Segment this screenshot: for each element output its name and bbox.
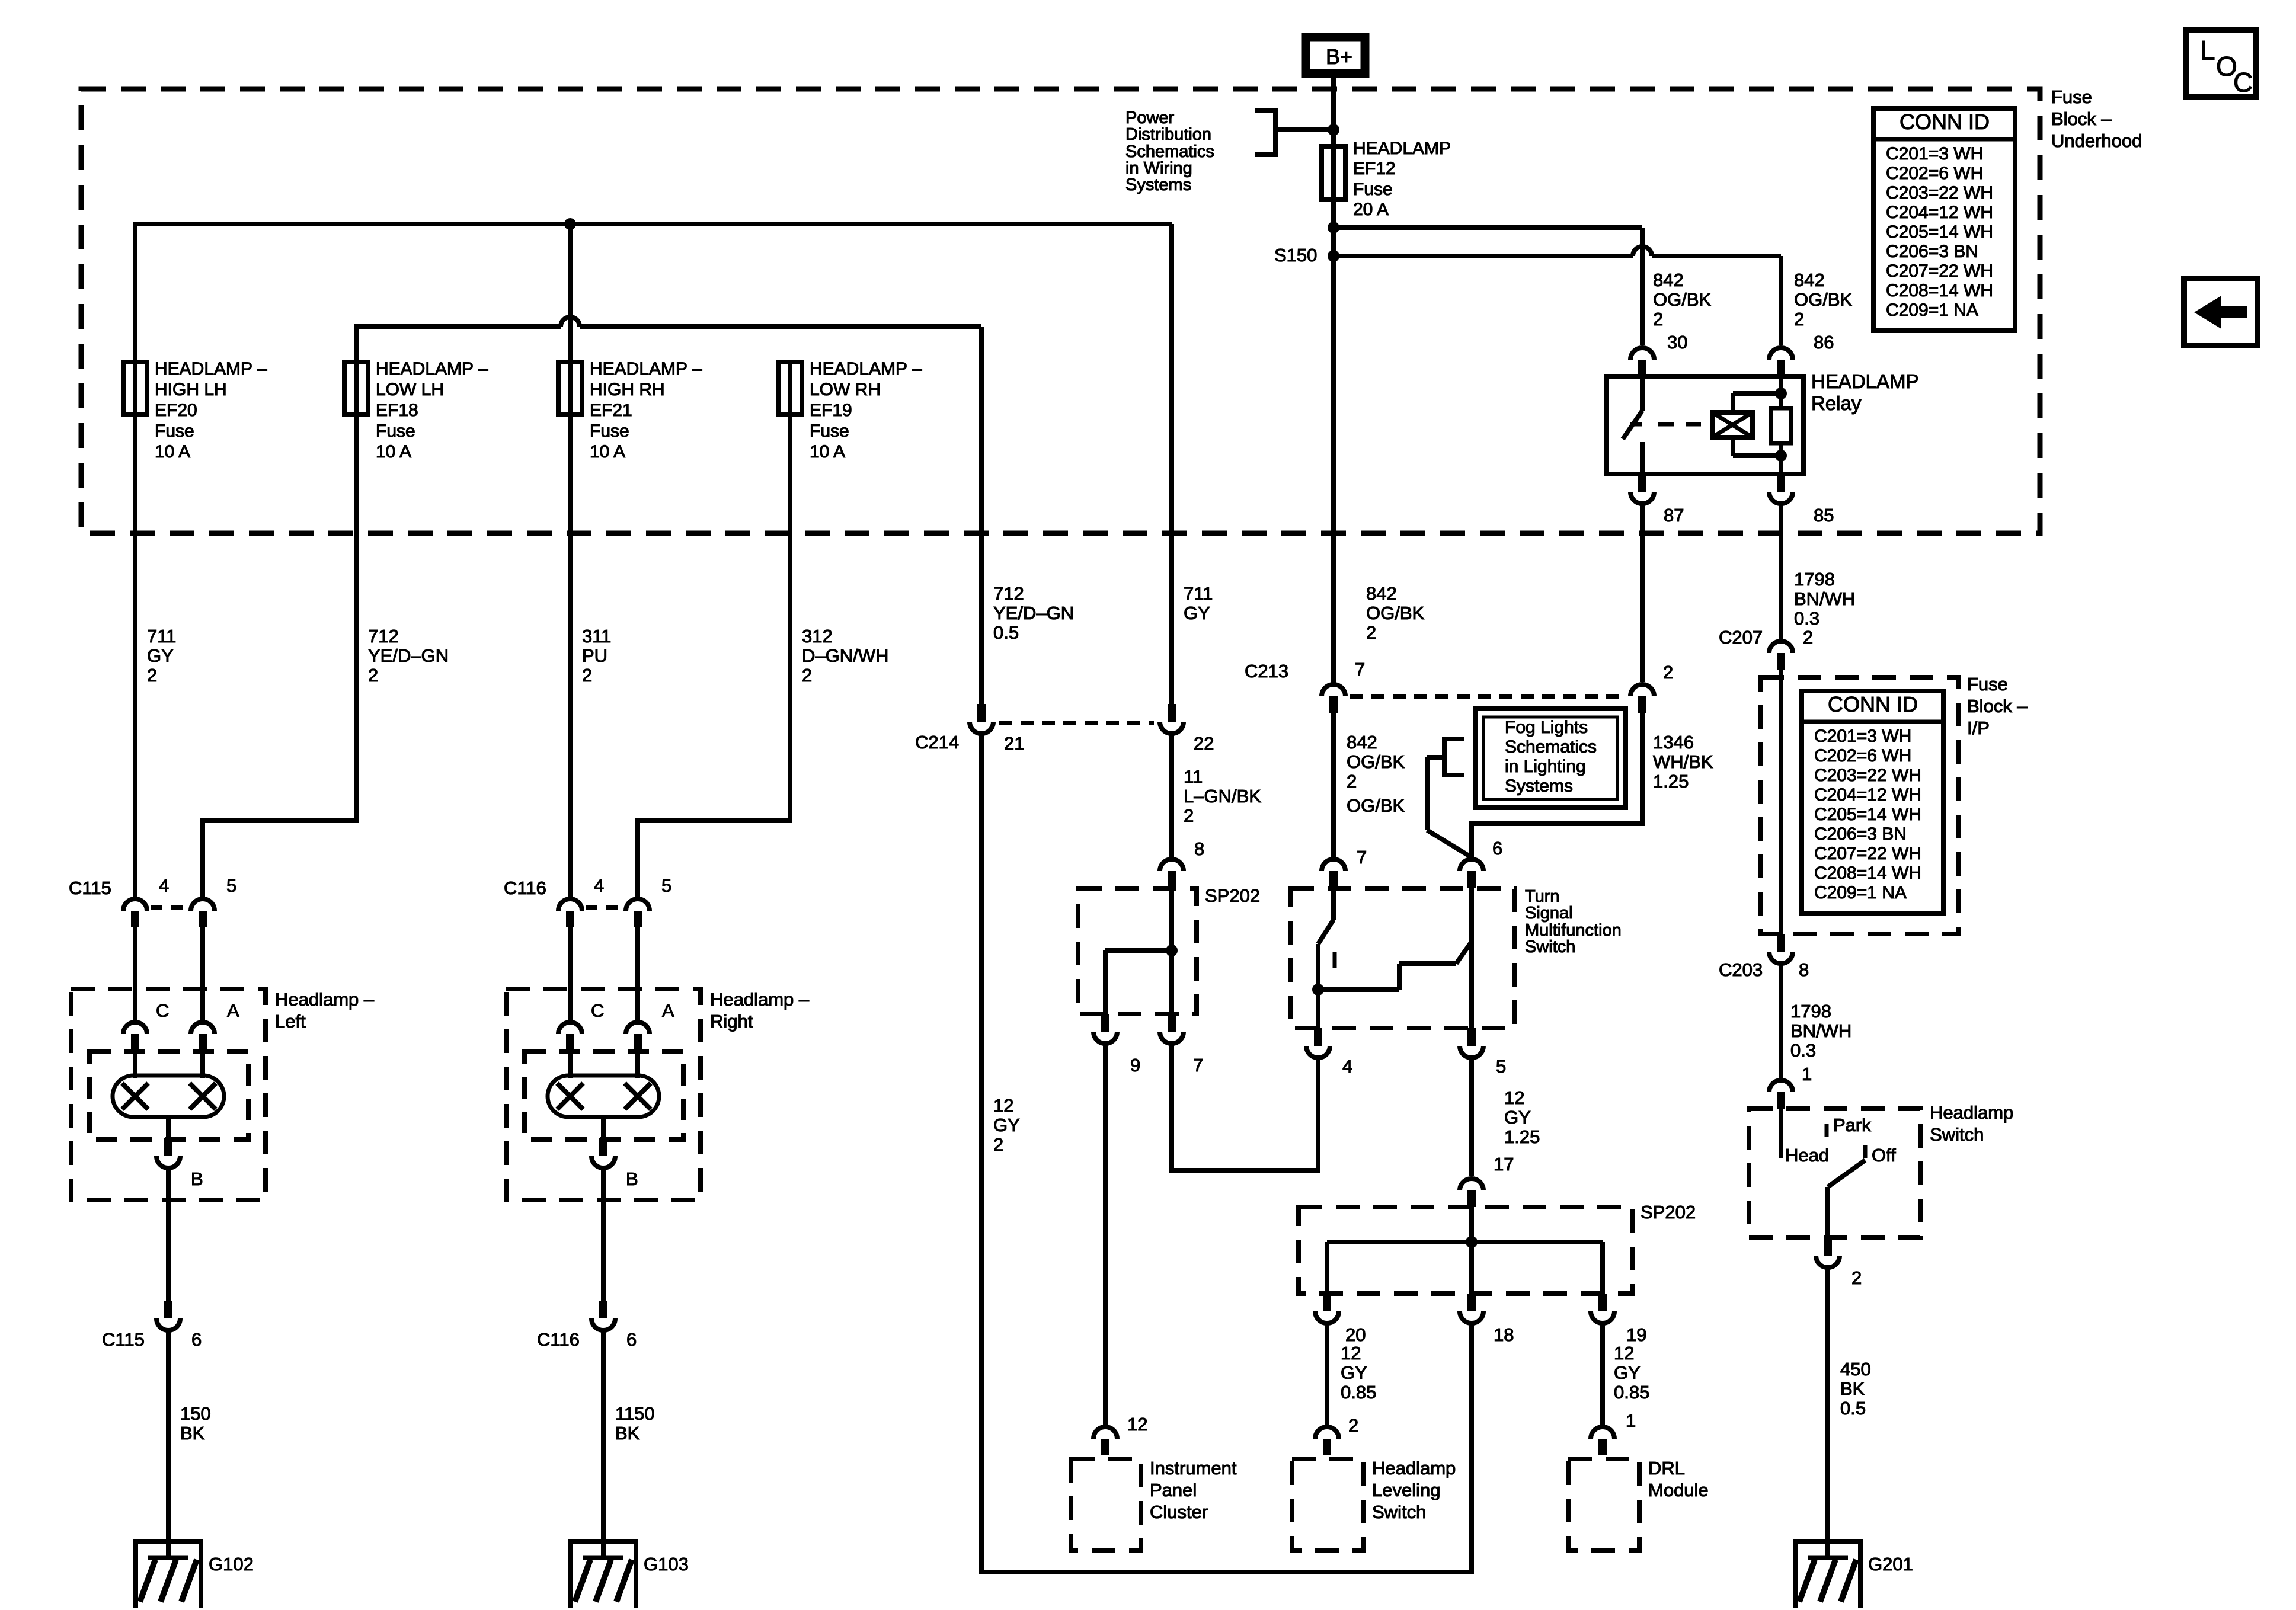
wire to G102 bbox=[166, 1328, 171, 1542]
wire relay85 to C207 bbox=[1779, 501, 1783, 639]
svg-text:1346: 1346 bbox=[1653, 732, 1694, 753]
svg-text:11: 11 bbox=[1184, 766, 1203, 787]
label HEADLAMP – LOW LH EF18 Fuse 10 A bbox=[376, 359, 488, 462]
svg-text:2: 2 bbox=[1803, 627, 1813, 648]
component Headlamp Leveling Switch dashed box bbox=[1292, 1459, 1363, 1550]
label 6 bbox=[626, 1329, 637, 1350]
svg-text:Panel: Panel bbox=[1150, 1480, 1197, 1500]
svg-text:312: 312 bbox=[802, 626, 833, 646]
svg-text:2: 2 bbox=[368, 665, 378, 686]
svg-text:GY: GY bbox=[993, 1115, 1020, 1135]
svg-text:712: 712 bbox=[368, 626, 399, 646]
label 11 L–GN/BK 2 bbox=[1184, 766, 1261, 826]
svg-text:EF20: EF20 bbox=[155, 401, 197, 420]
label 842 OG/BK 2 bbox=[1794, 270, 1853, 329]
junction dot SP202 bbox=[1166, 945, 1178, 956]
svg-text:842: 842 bbox=[1653, 270, 1684, 290]
svg-text:5: 5 bbox=[661, 875, 671, 896]
label 20 bbox=[1345, 1324, 1366, 1345]
svg-text:S150: S150 bbox=[1274, 245, 1317, 265]
svg-text:8: 8 bbox=[1194, 838, 1204, 859]
B+ battery terminal box bbox=[1306, 37, 1365, 73]
svg-text:G103: G103 bbox=[644, 1554, 689, 1574]
svg-text:4: 4 bbox=[159, 875, 169, 896]
svg-text:B: B bbox=[626, 1169, 638, 1189]
svg-text:BK: BK bbox=[615, 1423, 640, 1443]
label C bbox=[156, 1000, 169, 1021]
svg-text:7: 7 bbox=[1357, 847, 1367, 868]
wires into bulb bbox=[570, 1051, 638, 1078]
svg-text:HIGH LH: HIGH LH bbox=[155, 380, 227, 399]
svg-text:C: C bbox=[591, 1000, 604, 1021]
label 2 bbox=[1663, 662, 1673, 683]
svg-text:SP202: SP202 bbox=[1205, 885, 1260, 906]
label 1798 BN/WH 0.3 bbox=[1790, 1001, 1851, 1061]
svg-text:1150: 1150 bbox=[615, 1403, 655, 1424]
svg-text:EF18: EF18 bbox=[376, 401, 418, 420]
label G102 bbox=[209, 1554, 254, 1574]
wire EF21 to C116-4 bbox=[568, 362, 573, 897]
relay switch contact bbox=[1623, 376, 1642, 474]
svg-text:711: 711 bbox=[147, 626, 176, 646]
bulb Right bbox=[548, 1076, 659, 1117]
connector C207 pin2 bbox=[1769, 641, 1793, 670]
node S150 bbox=[1328, 250, 1339, 262]
wire EF20 to C115-4 bbox=[133, 362, 137, 897]
svg-text:85: 85 bbox=[1814, 505, 1834, 526]
svg-text:D–GN/WH: D–GN/WH bbox=[802, 645, 888, 666]
fuse block IP dashed box bbox=[1760, 677, 1959, 934]
connector C115 pin6 bbox=[156, 1301, 180, 1330]
svg-text:Park: Park bbox=[1833, 1115, 1871, 1135]
SP202 lower internal wires bbox=[1327, 1207, 1603, 1294]
svg-text:2: 2 bbox=[1184, 805, 1194, 826]
label 5 bbox=[1496, 1056, 1506, 1077]
power distribution bracket bbox=[1255, 108, 1275, 157]
svg-text:GY: GY bbox=[1504, 1107, 1531, 1128]
svg-text:Switch: Switch bbox=[1372, 1502, 1426, 1522]
svg-text:0.5: 0.5 bbox=[1840, 1398, 1866, 1419]
relay HEADLAMP Relay box bbox=[1606, 376, 1803, 474]
svg-text:A: A bbox=[227, 1000, 239, 1021]
label 4 bbox=[159, 875, 169, 896]
label 85 bbox=[1814, 505, 1834, 526]
svg-text:Block –: Block – bbox=[2051, 108, 2112, 129]
svg-text:HIGH RH: HIGH RH bbox=[590, 380, 665, 399]
svg-text:2: 2 bbox=[1851, 1267, 1862, 1288]
label CONN ID bbox=[1900, 110, 1990, 134]
component Headlamp Left dashed box bbox=[71, 989, 266, 1200]
svg-text:A: A bbox=[662, 1000, 674, 1021]
svg-text:1: 1 bbox=[1626, 1410, 1636, 1431]
connector headlamp Left pin C bbox=[123, 1022, 147, 1051]
connector headlamp Right pin B bbox=[591, 1138, 615, 1168]
connector headlamp switch pin1 bbox=[1769, 1080, 1793, 1109]
svg-text:Distribution: Distribution bbox=[1125, 125, 1211, 144]
svg-text:2: 2 bbox=[1366, 622, 1376, 643]
component Turn Signal Multifunction Switch dashed box bbox=[1290, 889, 1515, 1028]
svg-text:C115: C115 bbox=[102, 1329, 145, 1350]
label 9 bbox=[1130, 1055, 1140, 1076]
relay coil wiring bbox=[1733, 393, 1781, 456]
label 18 bbox=[1494, 1324, 1514, 1345]
svg-text:B: B bbox=[191, 1169, 203, 1189]
junction dot at B+ tap bbox=[1328, 124, 1339, 136]
connector C116 pin4 bbox=[558, 899, 582, 927]
svg-text:2: 2 bbox=[147, 665, 157, 686]
svg-text:C205=14 WH: C205=14 WH bbox=[1886, 222, 1993, 242]
svg-text:C203: C203 bbox=[1719, 959, 1763, 980]
wire 12 GY 2 loop down-left-up bbox=[981, 731, 1472, 1572]
svg-text:HEADLAMP: HEADLAMP bbox=[1811, 370, 1919, 392]
label HEADLAMP – HIGH LH EF20 Fuse 10 A bbox=[155, 359, 267, 462]
label Park bbox=[1833, 1115, 1871, 1135]
svg-text:G102: G102 bbox=[209, 1554, 254, 1574]
wire C116-5 to headlamp A bbox=[635, 927, 640, 1020]
label Fog Lights Schematics in Lighting System bbox=[1505, 718, 1597, 796]
svg-text:GY: GY bbox=[1614, 1362, 1641, 1383]
svg-text:CONN ID: CONN ID bbox=[1828, 692, 1918, 716]
connector DRL pin1 bbox=[1591, 1427, 1614, 1455]
label 30 bbox=[1667, 332, 1687, 353]
connector C116 pin6 bbox=[591, 1301, 615, 1330]
svg-text:Fuse: Fuse bbox=[590, 421, 629, 441]
svg-text:LOW RH: LOW RH bbox=[810, 380, 881, 399]
label Power Distribution Schematics in Wiring bbox=[1125, 108, 1214, 194]
wire B+ down to C213 via EF12 bbox=[1331, 73, 1336, 684]
label 1798 BN/WH 0.3 bbox=[1794, 569, 1855, 629]
svg-text:C207: C207 bbox=[1719, 627, 1763, 648]
svg-text:4: 4 bbox=[594, 875, 604, 896]
connector headlamp Left pin B bbox=[156, 1138, 180, 1168]
svg-text:BN/WH: BN/WH bbox=[1794, 588, 1855, 609]
wire branch to relay pin30 bbox=[1334, 225, 1642, 230]
label 5 bbox=[226, 875, 236, 896]
junction dots on pin86 leg bbox=[1775, 388, 1787, 399]
svg-text:2: 2 bbox=[1653, 309, 1663, 329]
svg-text:SP202: SP202 bbox=[1641, 1202, 1696, 1222]
svg-text:12: 12 bbox=[993, 1095, 1013, 1116]
svg-text:Block –: Block – bbox=[1967, 696, 2028, 716]
label 12 GY 1.25 bbox=[1504, 1087, 1540, 1147]
label C213 bbox=[1245, 661, 1288, 681]
svg-text:4: 4 bbox=[1342, 1056, 1352, 1077]
wire bulb to pin B bbox=[601, 1117, 606, 1138]
wire EF21 drop bbox=[568, 224, 573, 362]
label Headlamp Leveling Switch bbox=[1372, 1458, 1456, 1522]
turn signal internal contacts bbox=[1318, 888, 1472, 1028]
connector turnsignal pin7 bbox=[1322, 859, 1345, 888]
svg-text:GY: GY bbox=[147, 645, 174, 666]
svg-text:Systems: Systems bbox=[1505, 776, 1573, 796]
svg-text:C116: C116 bbox=[537, 1329, 580, 1350]
fuse EF18 HEADLAMP-LOW LH bbox=[344, 362, 368, 415]
junction dot SP202 lower bbox=[1466, 1236, 1478, 1248]
bulb Left bbox=[113, 1076, 224, 1117]
wire C115-5 to headlamp A bbox=[200, 927, 205, 1020]
wire bulb to pin B bbox=[166, 1117, 171, 1138]
svg-text:87: 87 bbox=[1664, 505, 1684, 526]
label 1 bbox=[1626, 1410, 1636, 1431]
svg-text:OG/BK: OG/BK bbox=[1366, 603, 1425, 623]
svg-text:30: 30 bbox=[1667, 332, 1687, 353]
svg-text:C209=1 NA: C209=1 NA bbox=[1814, 883, 1907, 902]
svg-text:5: 5 bbox=[1496, 1056, 1506, 1077]
label 712 YE/D–GN 2 bbox=[368, 626, 449, 686]
wire C116-4 to headlamp C bbox=[568, 927, 573, 1020]
svg-text:GY: GY bbox=[1341, 1362, 1367, 1383]
svg-text:20: 20 bbox=[1345, 1324, 1366, 1345]
svg-text:1.25: 1.25 bbox=[1504, 1126, 1540, 1147]
svg-text:Headlamp –: Headlamp – bbox=[275, 989, 375, 1010]
label 2 bbox=[1803, 627, 1813, 648]
svg-text:1: 1 bbox=[1802, 1064, 1812, 1084]
label 150 BK bbox=[180, 1403, 211, 1443]
label C115 bbox=[102, 1329, 145, 1350]
label HEADLAMP Relay bbox=[1811, 370, 1919, 414]
svg-text:C214: C214 bbox=[915, 732, 959, 753]
wire SP202-7 to turnsignal pin4 bbox=[1172, 1041, 1318, 1170]
wire EF18 to C115-5 bbox=[203, 362, 356, 897]
svg-text:Fuse: Fuse bbox=[810, 421, 849, 441]
label S150 bbox=[1274, 245, 1317, 265]
wire relay87 to C213 pin2 bbox=[1640, 501, 1645, 682]
svg-text:20 A: 20 A bbox=[1353, 200, 1389, 219]
label B bbox=[626, 1169, 638, 1189]
fog lights reference box bbox=[1475, 709, 1626, 808]
label 842 OG/BK 2 bbox=[1347, 732, 1405, 792]
svg-text:Instrument: Instrument bbox=[1150, 1458, 1237, 1478]
svg-text:12: 12 bbox=[1127, 1414, 1147, 1435]
svg-text:Left: Left bbox=[275, 1011, 306, 1032]
label Turn Signal Multifunction Switch bbox=[1525, 887, 1622, 956]
label Instrument Panel Cluster bbox=[1150, 1458, 1237, 1522]
connector C214 pin22 bbox=[1160, 704, 1184, 734]
svg-text:Underhood: Underhood bbox=[2051, 130, 2142, 151]
svg-text:10 A: 10 A bbox=[376, 442, 411, 462]
connector C213 pin7 bbox=[1322, 684, 1345, 713]
svg-text:Cluster: Cluster bbox=[1150, 1502, 1208, 1522]
wire pin5 to pin17 bbox=[1469, 1055, 1474, 1176]
label Headlamp Switch bbox=[1930, 1102, 2013, 1145]
C115 dashed link bbox=[151, 905, 187, 910]
svg-text:C201=3 WH: C201=3 WH bbox=[1814, 726, 1911, 746]
svg-text:2: 2 bbox=[1348, 1415, 1358, 1436]
svg-text:2: 2 bbox=[1663, 662, 1673, 683]
svg-text:LOW LH: LOW LH bbox=[376, 380, 444, 399]
label C bbox=[591, 1000, 604, 1021]
svg-text:PU: PU bbox=[582, 645, 607, 666]
svg-text:Headlamp –: Headlamp – bbox=[710, 989, 810, 1010]
splice SP202 upper dashed box bbox=[1078, 889, 1197, 1014]
wire C115-4 to headlamp C bbox=[133, 927, 137, 1020]
label 5 bbox=[661, 875, 671, 896]
svg-text:Systems: Systems bbox=[1125, 175, 1191, 194]
svg-text:842: 842 bbox=[1794, 270, 1825, 290]
label 12 GY 0.85 bbox=[1341, 1343, 1376, 1403]
svg-text:C204=12 WH: C204=12 WH bbox=[1814, 785, 1921, 805]
svg-text:C208=14 WH: C208=14 WH bbox=[1814, 863, 1921, 883]
svg-text:C204=12 WH: C204=12 WH bbox=[1886, 203, 1993, 222]
connector headlamp switch pin2 bbox=[1816, 1238, 1840, 1267]
label 842 OG/BK 2 bbox=[1366, 583, 1425, 643]
svg-text:Right: Right bbox=[710, 1011, 753, 1032]
label 4 bbox=[1342, 1056, 1352, 1077]
label A bbox=[227, 1000, 239, 1021]
svg-text:0.85: 0.85 bbox=[1341, 1382, 1376, 1403]
svg-text:7: 7 bbox=[1355, 659, 1365, 680]
svg-text:2: 2 bbox=[582, 665, 592, 686]
label C115 bbox=[69, 878, 111, 898]
svg-text:12: 12 bbox=[1614, 1343, 1634, 1363]
component Instrument Panel Cluster dashed box bbox=[1071, 1459, 1141, 1550]
wire bracket to B+ wire bbox=[1275, 127, 1334, 132]
label 711 GY 2 bbox=[147, 626, 176, 686]
label OG/BK bbox=[1347, 795, 1405, 816]
ground G201 bbox=[1793, 1539, 1863, 1608]
svg-text:Fuse: Fuse bbox=[376, 421, 415, 441]
svg-text:Fuse: Fuse bbox=[1967, 674, 2008, 694]
label C214 bbox=[915, 732, 959, 753]
svg-text:EF19: EF19 bbox=[810, 401, 852, 420]
svg-text:C: C bbox=[2233, 67, 2253, 98]
label 86 bbox=[1814, 332, 1834, 353]
svg-text:Headlamp: Headlamp bbox=[1372, 1458, 1456, 1478]
connector C115 pin5 bbox=[191, 899, 215, 927]
connector relay pin 87 bbox=[1630, 474, 1654, 504]
label Fuse Block – Underhood bbox=[2051, 87, 2142, 151]
svg-text:0.3: 0.3 bbox=[1790, 1040, 1816, 1061]
svg-text:Schematics: Schematics bbox=[1505, 737, 1597, 757]
svg-text:B+: B+ bbox=[1326, 44, 1352, 69]
label 1346 WH/BK 1.25 bbox=[1653, 732, 1713, 792]
connector relay pin 86 bbox=[1769, 348, 1793, 376]
svg-text:10 A: 10 A bbox=[155, 442, 190, 462]
connector SP202 pin19 bbox=[1591, 1294, 1614, 1323]
label HEADLAMP EF12 Fuse 20 A bbox=[1353, 139, 1451, 219]
svg-text:842: 842 bbox=[1347, 732, 1377, 753]
svg-text:711: 711 bbox=[1184, 583, 1213, 604]
label 21 bbox=[1004, 733, 1024, 754]
label C203 bbox=[1719, 959, 1763, 980]
label Head bbox=[1785, 1145, 1829, 1166]
fog tap bracket bbox=[1444, 737, 1464, 777]
connector SP202 pin20 bbox=[1315, 1294, 1339, 1323]
label 2 bbox=[1348, 1415, 1358, 1436]
label C bbox=[2233, 67, 2253, 98]
svg-text:Relay: Relay bbox=[1811, 392, 1862, 414]
svg-text:450: 450 bbox=[1840, 1359, 1871, 1379]
svg-text:22: 22 bbox=[1194, 733, 1214, 754]
svg-text:Module: Module bbox=[1648, 1480, 1709, 1500]
label B+ bbox=[1326, 44, 1352, 69]
relay coil bbox=[1712, 412, 1753, 437]
connector SP202 pin17 bbox=[1460, 1179, 1483, 1207]
svg-text:C205=14 WH: C205=14 WH bbox=[1814, 805, 1921, 824]
wire line2 low-beam feed with hop bbox=[354, 327, 981, 704]
svg-text:L–GN/BK: L–GN/BK bbox=[1184, 786, 1261, 806]
svg-text:Fuse: Fuse bbox=[2051, 87, 2092, 107]
svg-text:Fuse: Fuse bbox=[1353, 180, 1393, 199]
wire to G103 bbox=[601, 1328, 606, 1542]
connector relay pin 30 bbox=[1630, 348, 1654, 376]
svg-text:0.3: 0.3 bbox=[1794, 608, 1819, 629]
svg-text:311: 311 bbox=[582, 626, 611, 646]
svg-text:HEADLAMP: HEADLAMP bbox=[1353, 139, 1451, 158]
svg-text:C202=6 WH: C202=6 WH bbox=[1814, 746, 1911, 766]
svg-text:0.85: 0.85 bbox=[1614, 1382, 1649, 1403]
label G103 bbox=[644, 1554, 689, 1574]
label C207 bbox=[1719, 627, 1763, 648]
connector C115 pin4 bbox=[123, 899, 147, 927]
svg-text:86: 86 bbox=[1814, 332, 1834, 353]
svg-text:12: 12 bbox=[1341, 1343, 1361, 1363]
connector relay pin 85 bbox=[1769, 474, 1793, 504]
label 711 GY bbox=[1184, 583, 1213, 623]
svg-text:2: 2 bbox=[802, 665, 812, 686]
label SP202 bbox=[1641, 1202, 1696, 1222]
wire fog tap to pin6 bbox=[1427, 757, 1470, 856]
label 12 bbox=[1127, 1414, 1147, 1435]
svg-text:0.5: 0.5 bbox=[993, 622, 1019, 643]
label L bbox=[2200, 35, 2215, 66]
svg-text:WH/BK: WH/BK bbox=[1653, 751, 1713, 772]
label 6 bbox=[191, 1329, 202, 1350]
svg-text:Fog Lights: Fog Lights bbox=[1505, 718, 1588, 737]
CONN ID table underhood bbox=[1873, 108, 2015, 331]
wire C214-22 to SP202 pin8 bbox=[1169, 731, 1174, 857]
ground G103 bbox=[568, 1539, 638, 1608]
svg-text:7: 7 bbox=[1193, 1055, 1203, 1076]
svg-text:YE/D–GN: YE/D–GN bbox=[993, 603, 1074, 623]
svg-text:9: 9 bbox=[1130, 1055, 1140, 1076]
label 12 GY 0.85 bbox=[1614, 1343, 1649, 1403]
svg-text:5: 5 bbox=[226, 875, 236, 896]
label 4 bbox=[594, 875, 604, 896]
CONN ID table IP bbox=[1802, 691, 1943, 913]
label C116 bbox=[504, 878, 546, 898]
C214 dashed link bbox=[999, 721, 1154, 725]
label 22 bbox=[1194, 733, 1214, 754]
svg-text:YE/D–GN: YE/D–GN bbox=[368, 645, 449, 666]
junction dot turn signal bbox=[1312, 984, 1324, 996]
connector cluster pin12 bbox=[1093, 1427, 1117, 1455]
label 6 bbox=[1492, 838, 1502, 859]
wire SP202-9 to cluster pin12 bbox=[1103, 1041, 1108, 1425]
svg-text:Switch: Switch bbox=[1525, 937, 1575, 956]
label 7 bbox=[1357, 847, 1367, 868]
svg-text:HEADLAMP –: HEADLAMP – bbox=[810, 359, 922, 379]
label 312 D–GN/WH 2 bbox=[802, 626, 888, 686]
splice SP202 lower dashed box bbox=[1299, 1207, 1632, 1294]
label DRL Module bbox=[1648, 1458, 1709, 1500]
svg-text:HEADLAMP –: HEADLAMP – bbox=[376, 359, 488, 379]
connector C203 pin8 bbox=[1769, 934, 1793, 964]
label 2 bbox=[1851, 1267, 1862, 1288]
svg-text:18: 18 bbox=[1494, 1324, 1514, 1345]
svg-text:CONN ID: CONN ID bbox=[1900, 110, 1990, 134]
component Headlamp Switch dashed box bbox=[1749, 1109, 1920, 1238]
label HEADLAMP – HIGH RH EF21 Fuse 10 A bbox=[590, 359, 702, 462]
connector SP202 pin8 bbox=[1160, 859, 1184, 888]
svg-text:C202=6 WH: C202=6 WH bbox=[1886, 164, 1983, 183]
label 712 YE/D–GN 0.5 bbox=[993, 583, 1074, 643]
component Headlamp Right dashed box bbox=[506, 989, 701, 1200]
label HEADLAMP – LOW RH EF19 Fuse 10 A bbox=[810, 359, 922, 462]
connector turnsignal pin4 bbox=[1306, 1028, 1330, 1058]
svg-text:HEADLAMP –: HEADLAMP – bbox=[590, 359, 702, 379]
wire to G201 bbox=[1825, 1265, 1830, 1542]
